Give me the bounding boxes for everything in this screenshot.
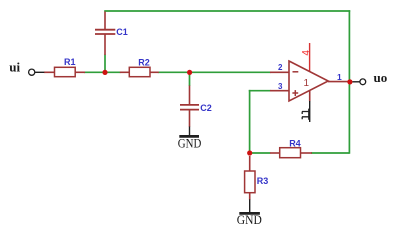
svg-text:4: 4	[301, 50, 312, 56]
svg-text:2: 2	[278, 63, 283, 72]
svg-text:3: 3	[278, 82, 283, 91]
svg-text:GND: GND	[237, 212, 262, 227]
svg-text:uo: uo	[374, 70, 388, 85]
svg-text:C2: C2	[200, 103, 212, 113]
svg-text:R1: R1	[64, 57, 76, 67]
svg-text:R3: R3	[257, 176, 269, 186]
svg-text:GND: GND	[178, 135, 202, 150]
svg-text:R4: R4	[289, 138, 301, 148]
svg-text:1: 1	[304, 78, 310, 89]
svg-text:C1: C1	[116, 27, 128, 37]
svg-text:R2: R2	[138, 57, 150, 67]
svg-text:ui: ui	[9, 60, 20, 75]
svg-text:1: 1	[337, 72, 342, 82]
